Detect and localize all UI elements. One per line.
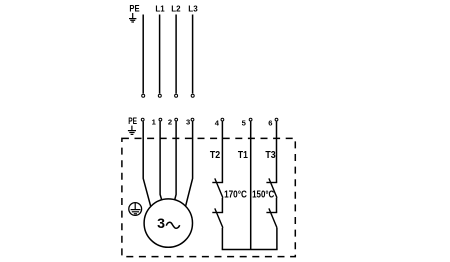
wire 4 lower segment [221, 228, 223, 250]
wire 2 to motor [175, 121, 176, 199]
wire L2 [175, 15, 177, 94]
wire 5 full segment [250, 121, 252, 249]
cable end circle L3 [191, 94, 194, 97]
dashed pump enclosure [122, 138, 295, 256]
terminal circle 3 [191, 118, 194, 121]
wire 3 to motor [186, 121, 193, 206]
svg-text:2: 2 [168, 118, 172, 127]
wire 4 mid segment [221, 198, 223, 213]
thermal switch lower contact on wire 4 [212, 208, 223, 227]
wire 6 mid segment [276, 198, 278, 213]
wire PE to motor [143, 121, 151, 207]
svg-text:PE: PE [129, 4, 139, 14]
svg-text:1: 1 [152, 118, 157, 127]
terminal circle 2 [175, 118, 178, 121]
svg-text:3: 3 [186, 118, 190, 127]
svg-text:T2: T2 [210, 150, 221, 161]
svg-text:5: 5 [242, 118, 247, 127]
ground symbol (supply PE) [129, 13, 136, 22]
svg-text:T3: T3 [265, 150, 276, 161]
wire L3 [192, 15, 194, 94]
protective earth symbol (circle) [129, 203, 142, 216]
terminal circle PE [141, 118, 144, 121]
thermal switch upper contact on wire 4 [212, 178, 223, 197]
svg-text:L2: L2 [171, 4, 181, 13]
tilde of 3~ [166, 222, 179, 228]
wire PE (supply) [142, 15, 144, 94]
terminal circle 6 [275, 118, 278, 121]
wire 1 to motor [160, 121, 162, 199]
cable end circle L2 [175, 94, 178, 97]
terminal circle 5 [249, 118, 252, 121]
wire L1 [159, 15, 161, 94]
svg-text:4: 4 [215, 118, 220, 127]
wire 6 lower segment [276, 228, 278, 250]
protective earth symbol (bars) [131, 203, 141, 214]
svg-text:3: 3 [157, 216, 165, 232]
thermal switch upper contact on wire 6 [266, 178, 277, 197]
ground symbol (terminal PE) [128, 126, 136, 135]
svg-text:170°C: 170°C [224, 190, 247, 201]
wire 6 upper segment [276, 121, 278, 182]
thermal switch lower contact on wire 6 [266, 208, 277, 227]
terminal circle 4 [221, 118, 224, 121]
cable end circle L1 [158, 94, 161, 97]
svg-text:PE: PE [128, 116, 137, 126]
svg-text:L3: L3 [188, 4, 198, 13]
motor M 3-phase [144, 199, 192, 247]
cable end circle PE [142, 94, 145, 97]
wire bottom bus joining 4,5,6 [222, 249, 278, 251]
svg-text:6: 6 [268, 118, 272, 127]
svg-text:150°C: 150°C [252, 190, 275, 201]
terminal circle 1 [159, 118, 162, 121]
svg-text:T1: T1 [238, 150, 248, 161]
wire 4 upper segment [221, 121, 223, 182]
svg-text:L1: L1 [155, 4, 165, 13]
